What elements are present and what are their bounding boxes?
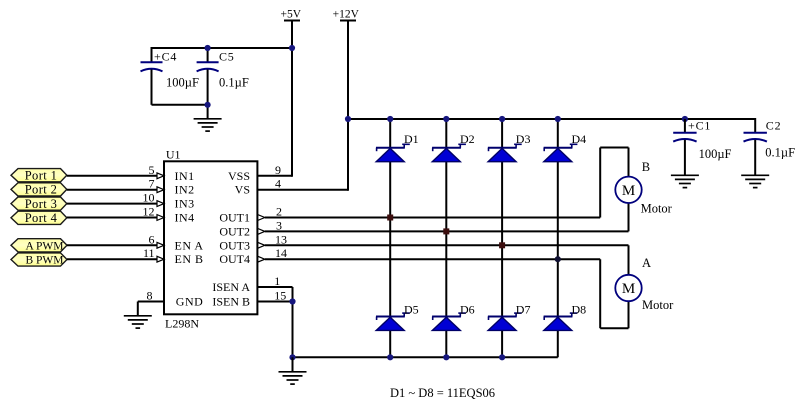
svg-text:0.1µF: 0.1µF bbox=[219, 76, 249, 90]
svg-text:9: 9 bbox=[275, 163, 281, 177]
svg-text:D7: D7 bbox=[516, 302, 531, 316]
svg-text:10: 10 bbox=[143, 191, 155, 205]
svg-text:12: 12 bbox=[143, 205, 155, 219]
power +12V bbox=[333, 9, 360, 21]
node OUT4-D4 junction bbox=[555, 256, 561, 262]
svg-text:M: M bbox=[622, 183, 635, 199]
op-amp U1 chip body bbox=[164, 148, 257, 331]
svg-text:EN B: EN B bbox=[175, 252, 204, 266]
wire C4/C5 top rail bbox=[152, 47, 293, 49]
svg-text:14: 14 bbox=[275, 246, 287, 260]
diode D5 bbox=[376, 302, 419, 330]
wire Port3 to IN3 bbox=[67, 203, 158, 205]
pin arrow ENA bbox=[157, 242, 164, 248]
svg-text:13: 13 bbox=[275, 232, 287, 246]
wire GND pin 8 bbox=[138, 302, 164, 316]
svg-text:100µF: 100µF bbox=[699, 147, 732, 161]
ground U1 GND bbox=[124, 316, 152, 328]
U1 pin numbers left bbox=[143, 163, 155, 303]
svg-text:0.1µF: 0.1µF bbox=[765, 146, 795, 160]
svg-text:15: 15 bbox=[274, 289, 286, 303]
U1 pin names right bbox=[212, 169, 250, 309]
pin arrow IN1 bbox=[157, 173, 164, 179]
wire top rail +12V to C2 bbox=[348, 118, 755, 120]
node OUT3-D3 junction bbox=[499, 242, 505, 248]
wire VS to +12V bbox=[257, 189, 348, 191]
motor B bbox=[615, 160, 672, 216]
wire C4 top stub bbox=[151, 47, 153, 63]
svg-text:VS: VS bbox=[235, 183, 250, 197]
diode D8 bbox=[544, 302, 587, 330]
node rail D4 bbox=[555, 116, 561, 122]
wire C2 top stub bbox=[754, 118, 756, 133]
wire C2 bottom lead bbox=[754, 140, 756, 176]
node ISEN B junction bbox=[289, 298, 295, 304]
svg-text:2: 2 bbox=[276, 204, 282, 218]
svg-text:Port 1: Port 1 bbox=[25, 168, 58, 182]
svg-text:5: 5 bbox=[149, 163, 155, 177]
wire ISEN ground stub bbox=[292, 357, 294, 372]
wire C4 bottom lead bbox=[151, 70, 153, 105]
node rail D1 bbox=[387, 116, 393, 122]
svg-text:D5: D5 bbox=[404, 302, 419, 316]
diode D6 bbox=[432, 302, 475, 330]
svg-text:Port 3: Port 3 bbox=[25, 197, 58, 211]
wire BPWM to ENB bbox=[67, 258, 158, 260]
wire motor A bottom path bbox=[600, 259, 628, 328]
port flag Port 4 bbox=[11, 211, 67, 225]
svg-text:6: 6 bbox=[149, 232, 155, 246]
svg-text:IN1: IN1 bbox=[175, 169, 195, 183]
wire diode column 1 bbox=[389, 119, 391, 357]
svg-text:EN A: EN A bbox=[175, 238, 204, 252]
svg-text:Motor: Motor bbox=[642, 298, 674, 312]
svg-text:+12V: +12V bbox=[333, 9, 360, 21]
wire OUT1 bbox=[265, 217, 600, 219]
wire C4/C5 bottom rail bbox=[152, 104, 208, 106]
svg-text:4: 4 bbox=[275, 177, 281, 191]
wire C5 bottom lead bbox=[207, 70, 209, 105]
note D1-D8 part number bbox=[390, 386, 495, 400]
svg-text:3: 3 bbox=[276, 218, 282, 232]
wire +5V vertical bbox=[291, 21, 293, 177]
wire motor B top path bbox=[600, 148, 628, 218]
ground C1 bbox=[671, 175, 699, 187]
svg-text:VSS: VSS bbox=[228, 169, 250, 183]
svg-text:11: 11 bbox=[143, 246, 155, 260]
node OUT2-D2 junction bbox=[443, 228, 449, 234]
svg-text:Port 2: Port 2 bbox=[25, 183, 58, 197]
pin arrow OUT3 bbox=[258, 242, 265, 248]
svg-text:L298N: L298N bbox=[165, 316, 199, 330]
svg-text:IN4: IN4 bbox=[175, 211, 195, 225]
svg-text:D6: D6 bbox=[460, 302, 475, 316]
node rail C1 bbox=[682, 116, 688, 122]
svg-text:D1 ~ D8 = 11EQS06: D1 ~ D8 = 11EQS06 bbox=[390, 386, 495, 400]
wire Port2 to IN2 bbox=[67, 189, 158, 191]
pin arrow OUT1 bbox=[258, 215, 265, 221]
svg-text:D4: D4 bbox=[572, 132, 587, 146]
svg-text:OUT4: OUT4 bbox=[219, 252, 250, 266]
node bottom rail D6 bbox=[443, 354, 449, 360]
pin arrow OUT2 bbox=[258, 229, 265, 235]
pin arrow IN4 bbox=[157, 215, 164, 221]
wire VSS to +5V bbox=[257, 175, 292, 177]
svg-text:U1: U1 bbox=[166, 148, 181, 162]
port flag Port 1 bbox=[11, 168, 67, 182]
pin arrow ENB bbox=[157, 256, 164, 262]
svg-text:+C4: +C4 bbox=[154, 50, 177, 64]
node +5V rail junction bbox=[289, 45, 295, 51]
svg-text:OUT2: OUT2 bbox=[219, 224, 250, 238]
wire bottom rail bbox=[293, 356, 558, 358]
svg-text:C2: C2 bbox=[766, 119, 782, 133]
node rail D2 bbox=[443, 116, 449, 122]
capacitor C2 bbox=[744, 119, 796, 160]
diode D3 bbox=[488, 132, 531, 162]
svg-text:M: M bbox=[622, 281, 635, 297]
node rail D3 bbox=[499, 116, 505, 122]
wire motor A top path bbox=[628, 245, 630, 274]
diode D2 bbox=[432, 132, 475, 162]
wire ISEN vertical bbox=[292, 287, 294, 357]
svg-text:Port 4: Port 4 bbox=[25, 211, 58, 225]
svg-text:100µF: 100µF bbox=[166, 76, 199, 90]
wire ISEN B bbox=[257, 301, 292, 303]
wire diode column 2 bbox=[445, 119, 447, 357]
diode D1 bbox=[376, 132, 419, 162]
svg-text:IN2: IN2 bbox=[175, 183, 195, 197]
svg-text:D8: D8 bbox=[572, 302, 587, 316]
svg-text:B PWM: B PWM bbox=[25, 255, 63, 267]
svg-text:A PWM: A PWM bbox=[25, 241, 63, 253]
U1 pin numbers right bbox=[274, 163, 287, 303]
diode D7 bbox=[488, 302, 531, 330]
svg-text:B: B bbox=[642, 160, 650, 174]
node bottom rail D7 bbox=[499, 354, 505, 360]
svg-text:ISEN A: ISEN A bbox=[212, 280, 250, 294]
svg-text:OUT3: OUT3 bbox=[219, 238, 250, 252]
svg-text:Motor: Motor bbox=[641, 202, 673, 216]
svg-text:ISEN B: ISEN B bbox=[212, 295, 250, 309]
wire C5 ground stub bbox=[207, 105, 209, 119]
node C5 bottom junction bbox=[205, 102, 211, 108]
port flag B PWM bbox=[11, 253, 67, 267]
capacitor C5 bbox=[197, 50, 249, 90]
wire OUT3 bbox=[265, 244, 629, 246]
wire C1 bottom lead bbox=[684, 140, 686, 176]
ground C2 bbox=[741, 175, 769, 187]
node bottom rail D5 bbox=[387, 354, 393, 360]
svg-text:OUT1: OUT1 bbox=[219, 211, 250, 225]
pin arrow IN3 bbox=[157, 201, 164, 207]
U1 pin names left bbox=[175, 169, 204, 309]
node bottom rail left junction bbox=[289, 354, 295, 360]
port flag Port 2 bbox=[11, 183, 67, 197]
wire OUT4 bbox=[265, 258, 600, 260]
port flag Port 3 bbox=[11, 197, 67, 211]
wire C1 top stub bbox=[684, 119, 686, 133]
capacitor C4 bbox=[141, 50, 199, 90]
diode D4 bbox=[544, 132, 587, 162]
motor A bbox=[615, 256, 674, 312]
svg-text:+5V: +5V bbox=[281, 9, 302, 21]
node OUT1-D1 junction bbox=[387, 215, 393, 221]
svg-text:D3: D3 bbox=[516, 132, 531, 146]
wire APWM to ENA bbox=[67, 244, 158, 246]
wire diode column 3 bbox=[501, 119, 503, 357]
wire diode column 4 bbox=[557, 119, 559, 357]
svg-text:D2: D2 bbox=[460, 132, 475, 146]
capacitor C1 bbox=[673, 119, 731, 162]
wire +12V vertical bbox=[347, 21, 349, 191]
svg-text:D1: D1 bbox=[404, 132, 419, 146]
wire motor B bottom path bbox=[628, 203, 630, 231]
wire Port4 to IN4 bbox=[67, 217, 158, 219]
svg-text:C5: C5 bbox=[219, 50, 235, 64]
pin arrow OUT4 bbox=[258, 256, 265, 262]
ground ISEN bbox=[279, 372, 307, 384]
wire Port1 to IN1 bbox=[67, 175, 158, 177]
svg-text:IN3: IN3 bbox=[175, 197, 195, 211]
wire OUT2 bbox=[265, 230, 629, 232]
svg-text:GND: GND bbox=[176, 295, 204, 309]
svg-text:7: 7 bbox=[149, 177, 155, 191]
power +5V bbox=[281, 9, 302, 21]
wire C5 top stub bbox=[207, 48, 209, 63]
svg-text:8: 8 bbox=[147, 289, 153, 303]
svg-text:1: 1 bbox=[274, 274, 280, 288]
node +12V rail junction bbox=[345, 116, 351, 122]
wire ISEN A bbox=[257, 286, 292, 288]
port flag A PWM bbox=[11, 239, 67, 253]
svg-text:+C1: +C1 bbox=[688, 119, 711, 133]
node C5 top junction bbox=[205, 45, 211, 51]
svg-text:A: A bbox=[642, 256, 651, 270]
pin arrow IN2 bbox=[157, 187, 164, 193]
ground C4/C5 bbox=[194, 119, 222, 131]
